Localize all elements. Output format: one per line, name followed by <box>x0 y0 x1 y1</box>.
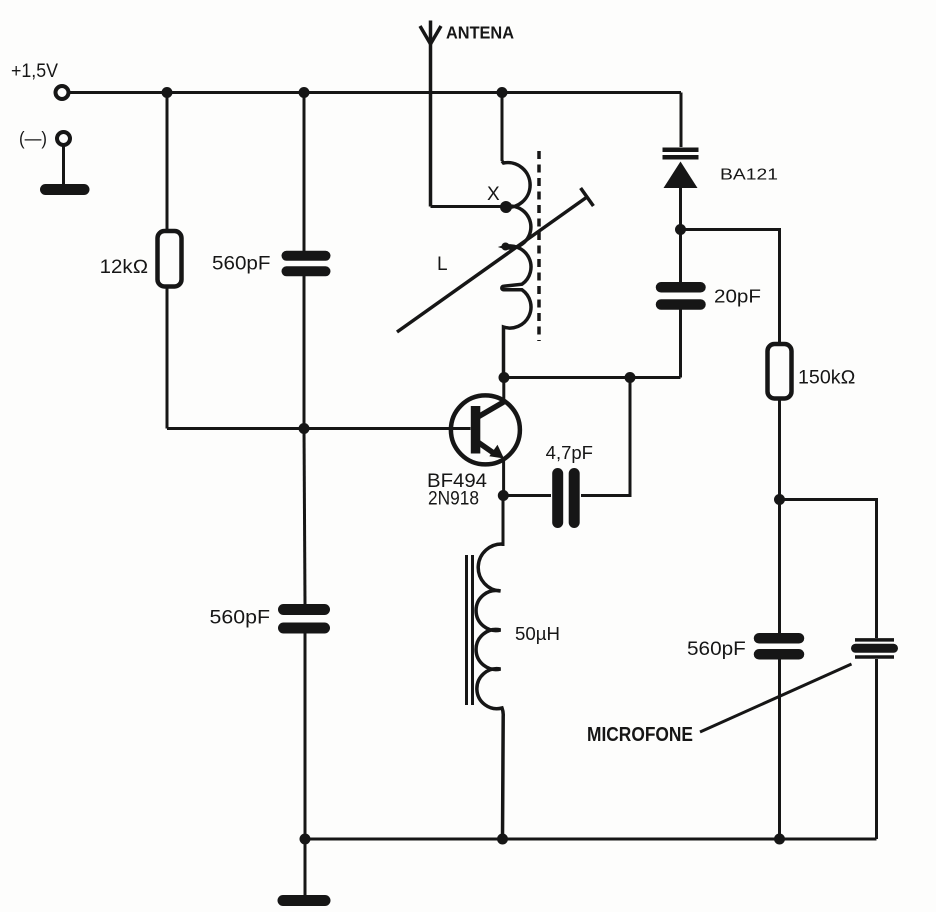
transistor Q1 BF494 / 2N918 <box>427 378 520 510</box>
label MICROFONE with pointer <box>587 664 852 746</box>
node: collector junction <box>499 372 510 383</box>
capacitor C2 560pF (bottom left) <box>210 608 325 629</box>
wire: minus terminal to ground <box>62 146 65 185</box>
wire: 20pF upper lead <box>679 230 682 284</box>
node: varactor-20pF-150k junction <box>675 224 686 235</box>
node: right 560pF bottom junction <box>774 834 785 845</box>
wire: 4,7pF to feedback node <box>581 378 630 496</box>
wire: varactor anode lead <box>679 188 682 230</box>
wire: 150k lower lead <box>778 399 781 500</box>
node: emitter junction <box>498 490 509 501</box>
svg-text:L: L <box>437 254 448 275</box>
svg-text:20pF: 20pF <box>714 287 761 307</box>
capacitor C4 4,7pF <box>546 443 593 523</box>
svg-text:(—): (—) <box>19 129 47 149</box>
ground (bottom) <box>283 895 325 906</box>
svg-text:4,7pF: 4,7pF <box>546 443 593 463</box>
svg-text:560pF: 560pF <box>212 254 271 275</box>
capacitor C1 560pF (top) <box>212 254 326 275</box>
svg-text:+1,5V: +1,5V <box>11 61 58 82</box>
node: feedback junction <box>625 372 636 383</box>
wire: tank top lead <box>501 93 504 162</box>
capacitor C5 560pF (right) <box>687 638 799 660</box>
svg-text:50µH: 50µH <box>515 624 560 644</box>
microphone MIC1 <box>855 640 894 657</box>
svg-text:ANTENA: ANTENA <box>446 23 514 43</box>
wire: bottom rail <box>305 838 877 841</box>
node: 150k-560pF-mic junction <box>774 494 785 505</box>
node: bottom rail left junction <box>300 834 311 845</box>
wire: mic lower lead <box>875 659 878 839</box>
wire: ground stub <box>304 839 307 895</box>
wire: rail corner to varactor <box>680 93 683 148</box>
svg-text:2N918: 2N918 <box>428 489 479 510</box>
wire: to 150k <box>681 230 780 345</box>
wire: 12k upper lead <box>166 93 169 233</box>
node X (coil top tap) <box>500 201 512 213</box>
wire: right 560pF lower lead <box>778 660 781 840</box>
svg-text:BA121: BA121 <box>720 166 778 183</box>
node: rail-tank junction <box>497 87 508 98</box>
svg-text:MICROFONE: MICROFONE <box>587 724 693 746</box>
varactor diode BA121 <box>663 150 779 188</box>
wire: bottom 560pF lower lead <box>304 634 307 840</box>
wire: junction to mic branch <box>780 500 877 639</box>
wire: antenna to coil tap X <box>431 205 506 208</box>
resistor R1 12kΩ <box>100 231 182 287</box>
wire: top 560pF lower lead <box>303 276 306 429</box>
inductor L (tank coil) <box>502 161 531 378</box>
wire: right 560pF upper lead <box>778 500 781 635</box>
node: rail-560pF junction <box>299 87 310 98</box>
inductor L2 50µH <box>467 544 561 839</box>
svg-text:560pF: 560pF <box>210 608 271 629</box>
node: base-560pF junction <box>299 423 310 434</box>
wire: tank bottom rail <box>504 376 681 379</box>
wire: emitter down to 50uH <box>502 496 505 547</box>
capacitor C3 20pF <box>661 287 761 307</box>
svg-text:X: X <box>487 184 500 205</box>
dashed core line <box>537 151 541 341</box>
node: coil trimmer tap <box>502 243 510 251</box>
svg-text:560pF: 560pF <box>687 639 746 660</box>
wire: base line <box>167 427 471 430</box>
ground (left) <box>46 184 85 195</box>
resistor R2 150kΩ <box>768 344 856 399</box>
battery + terminal <box>11 61 69 99</box>
svg-text:12kΩ: 12kΩ <box>100 257 149 278</box>
svg-text:150kΩ: 150kΩ <box>798 368 856 389</box>
trimmer arrow <box>397 188 593 332</box>
antenna <box>420 21 514 207</box>
wire: 20pF lower lead <box>679 310 682 378</box>
wire: +1,5V rail (top horizontal) <box>69 91 681 94</box>
wire: mid column down to bottom 560pF <box>304 429 305 605</box>
node: rail-12k junction <box>162 87 173 98</box>
wire: top 560pF upper lead <box>303 93 306 253</box>
wire: emitter to 4,7pF <box>503 494 551 497</box>
node: emitter bottom rail junction <box>497 834 508 845</box>
wire: 12k lower lead <box>166 286 169 429</box>
battery - terminal <box>19 129 70 149</box>
